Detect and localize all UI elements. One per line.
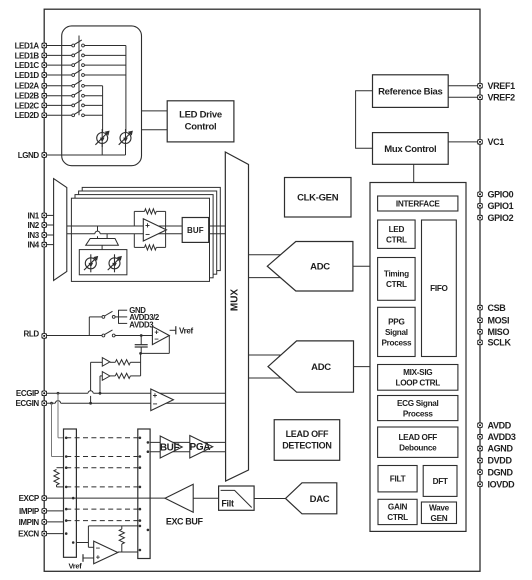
pin RLD [42, 333, 47, 338]
wire ILED1 to LGND bus [125, 144, 127, 155]
svg-text:Vref: Vref [179, 326, 194, 335]
block Reference Bias [373, 75, 449, 108]
wire VC1 [448, 141, 480, 143]
svg-text:BUF: BUF [187, 226, 204, 235]
wire VREF1 [448, 85, 480, 87]
switch RLD reference select [102, 311, 115, 318]
matrix row (open) [66, 508, 140, 510]
svg-text:Process: Process [381, 338, 412, 347]
wire funnel to bias box [101, 245, 103, 249]
op-amp ECG INA [151, 389, 174, 411]
wire EXCP row to EXC BUF [44, 497, 165, 499]
wire LED pin row 2 [44, 54, 72, 56]
svg-text:ECG Signal: ECG Signal [397, 399, 439, 408]
wire bias-muxctl link [356, 91, 373, 149]
wire ECGIN [44, 402, 55, 404]
wire switch out row 8 [84, 114, 102, 116]
wire switch out row 3 [84, 64, 126, 66]
block Filt [219, 486, 255, 510]
pin GPIO1 [477, 203, 482, 208]
svg-text:VREF1: VREF1 [488, 81, 516, 91]
pin GPIO0 [477, 192, 482, 197]
switch matrix left bank [64, 429, 77, 557]
svg-text:ADC: ADC [311, 362, 331, 373]
wire switch out row 6 [84, 95, 102, 97]
wire IN1 [44, 214, 53, 216]
switch S6 [72, 90, 85, 97]
svg-text:LED2B: LED2B [15, 92, 40, 101]
pin SCLK [477, 340, 482, 345]
svg-text:PPG: PPG [388, 317, 404, 326]
current source ILED1 [119, 129, 133, 147]
wire ECGIP [44, 392, 88, 394]
pin GPIO2 [477, 215, 482, 220]
pin AGND [477, 446, 482, 451]
block Mux Control [373, 133, 449, 165]
buffer CM2 [100, 375, 102, 377]
wire LED block to LED Drive Control (lower) [142, 129, 168, 131]
buffer EXC BUF [165, 484, 193, 512]
wire VREF2 [448, 96, 480, 98]
svg-text:RLD: RLD [24, 329, 40, 338]
matrix row (open) [66, 437, 140, 439]
svg-text:BUF: BUF [160, 443, 180, 454]
wire LGND bus [44, 154, 125, 156]
svg-text:EXCP: EXCP [19, 494, 40, 503]
switch S1 [72, 40, 85, 47]
pin ECGIN [42, 401, 47, 406]
block CLK-GEN [285, 178, 352, 218]
svg-text:IMPIN: IMPIN [19, 518, 40, 527]
svg-text:AGND: AGND [488, 444, 514, 454]
input mux trapezoid [54, 179, 67, 281]
svg-text:+: + [145, 221, 150, 230]
svg-text:DFT: DFT [433, 477, 448, 486]
pin AVDD3 [477, 434, 482, 439]
svg-text:CTRL: CTRL [387, 513, 408, 522]
wire RLD output down [168, 335, 170, 353]
buffer BUF [160, 436, 182, 458]
svg-text:GEN: GEN [431, 514, 448, 523]
svg-text:LEAD OFF: LEAD OFF [286, 429, 329, 439]
wire DAC to Filt [254, 498, 285, 500]
wire RLD feedback bottom [141, 352, 169, 354]
svg-text:LED1B: LED1B [15, 51, 40, 60]
wire switch out row 1 [84, 45, 126, 47]
block Timing CTRL [378, 258, 416, 301]
wire IN4 [44, 244, 53, 246]
switch S3 [72, 60, 85, 67]
block BUF [182, 218, 209, 243]
wire vref out to bank [118, 551, 138, 553]
svg-text:LED Drive: LED Drive [179, 110, 222, 121]
matrix row (open) [66, 520, 140, 522]
matrix row (open) [66, 467, 140, 469]
pin EXCP [42, 495, 47, 500]
pin ECGIP [42, 391, 47, 396]
wire to ref bracket [115, 316, 119, 318]
wire switch out row 7 [84, 104, 102, 106]
wire ADC2 out [354, 366, 371, 368]
LED switch block [62, 26, 142, 166]
current source bias B [108, 254, 122, 272]
svg-text:AVDD: AVDD [488, 420, 512, 430]
svg-text:IN3: IN3 [28, 231, 40, 240]
switch RLD enable [102, 330, 115, 337]
op-amp Vref [94, 541, 118, 564]
wire CM node [140, 353, 142, 376]
feedback resistor bottom [133, 234, 135, 248]
amplifier PGA [190, 436, 213, 459]
svg-text:LED: LED [389, 225, 405, 234]
pin LED1B [42, 53, 47, 58]
svg-text:LED1A: LED1A [15, 41, 40, 50]
wire vref fb top [88, 525, 137, 527]
wire EXCN [44, 533, 63, 535]
svg-text:VREF2: VREF2 [488, 93, 516, 103]
block LEAD OFF Debounce [378, 427, 458, 457]
svg-text:Timing: Timing [384, 270, 409, 279]
svg-text:−: − [145, 230, 150, 239]
svg-text:LED2A: LED2A [15, 82, 40, 91]
svg-text:Signal: Signal [385, 328, 408, 337]
svg-text:DVDD: DVDD [488, 456, 513, 466]
svg-text:FILT: FILT [390, 475, 406, 484]
svg-text:−: − [96, 544, 101, 553]
svg-text:+: + [153, 391, 158, 400]
pin LED2C [42, 103, 47, 108]
wire ECGIP to matrix [57, 393, 59, 438]
block DFT [423, 466, 457, 497]
block FILT [378, 466, 417, 492]
svg-text:Mux Control: Mux Control [384, 144, 436, 155]
feedback resistor top [133, 211, 135, 226]
LED switch bus [78, 36, 80, 116]
wire IMPIP [44, 510, 63, 512]
svg-text:LEAD OFF: LEAD OFF [398, 433, 437, 442]
svg-text:Filt: Filt [221, 499, 234, 509]
pin VC1 [477, 139, 482, 144]
svg-text:GPIO2: GPIO2 [488, 213, 514, 223]
wire LED pin row 6 [44, 95, 72, 97]
ADC (ECG) [268, 341, 354, 392]
wire ADC1 out [353, 265, 370, 267]
pin LED1D [42, 72, 47, 77]
block ECG Signal Process [378, 396, 458, 421]
switch S4 [72, 69, 85, 76]
svg-text:PGA: PGA [190, 442, 211, 453]
svg-text:SCLK: SCLK [488, 338, 512, 348]
svg-text:CSB: CSB [488, 303, 507, 313]
block PPG Signal Process [378, 307, 416, 356]
wire LED2 group down [102, 86, 104, 133]
svg-text:−: − [153, 400, 158, 409]
pin AVDD [477, 423, 482, 428]
wire ILED2 to LGND bus [101, 144, 103, 155]
svg-text:FIFO: FIFO [430, 284, 448, 293]
PPG channel stack [82, 187, 220, 270]
MUX [225, 152, 248, 481]
block Wave GEN [421, 502, 456, 524]
wire buf2 input drop [99, 376, 101, 393]
svg-text:MUX: MUX [229, 289, 240, 312]
wire bank to inv input [76, 542, 88, 544]
wire BUF chain n [150, 451, 225, 453]
pin IMPIN [42, 519, 47, 524]
svg-text:LED2D: LED2D [15, 111, 40, 120]
svg-text:Process: Process [403, 409, 434, 418]
matrix row (open) [66, 486, 140, 488]
svg-text:LED1D: LED1D [15, 71, 40, 80]
pin MISO [477, 329, 482, 334]
pin IN1 [42, 213, 47, 218]
svg-text:CLK-GEN: CLK-GEN [297, 193, 339, 204]
wire MUX to ADC2 n [249, 377, 282, 379]
pin VREF1 [477, 83, 482, 88]
block LED CTRL [378, 220, 416, 248]
wire buf1 input drop (lower) [90, 396, 92, 403]
svg-text:MIX-SIG: MIX-SIG [403, 368, 432, 377]
buffer CM1 [91, 361, 103, 363]
wire PPG signal n [67, 233, 226, 235]
svg-text:LED1C: LED1C [15, 61, 40, 70]
wire Mux Control to digital [413, 164, 415, 182]
svg-text:CTRL: CTRL [386, 280, 407, 289]
svg-text:DETECTION: DETECTION [282, 441, 331, 451]
wire Filt to EXC BUF [193, 497, 218, 499]
wire MUX to ADC1 n [249, 277, 282, 279]
svg-text:ADC: ADC [310, 262, 330, 273]
svg-text:LOOP CTRL: LOOP CTRL [396, 379, 441, 388]
op-amp RLD integrator [152, 326, 169, 344]
wire MUX to ADC2 p [249, 354, 282, 356]
svg-text:MOSI: MOSI [488, 316, 510, 326]
svg-text:IN2: IN2 [28, 221, 40, 230]
pin IN3 [42, 232, 47, 237]
wire ECGIN to matrix [51, 403, 53, 456]
pin LED2A [42, 83, 47, 88]
pin VREF2 [477, 95, 482, 100]
reference bracket GND/AVDD3/2/AVDD3 [118, 310, 120, 324]
svg-text:VC1: VC1 [488, 137, 505, 147]
switch S5 [72, 80, 85, 87]
block INTERFACE [378, 196, 458, 211]
chip boundary [44, 9, 480, 571]
svg-text:IN1: IN1 [28, 211, 40, 220]
svg-text:Control: Control [185, 122, 217, 133]
wire to feedback resistor [121, 526, 123, 529]
svg-text:CTRL: CTRL [386, 235, 407, 244]
svg-text:LGND: LGND [18, 151, 40, 160]
ADC (PPG) [267, 242, 353, 292]
wire buf1 input drop (upper) [90, 362, 92, 391]
svg-text:IOVDD: IOVDD [488, 479, 516, 489]
svg-text:EXC BUF: EXC BUF [166, 516, 204, 526]
pin IN2 [42, 222, 47, 227]
pin EXCN [42, 531, 47, 536]
wire IN3 [44, 234, 53, 236]
pin CSB [477, 305, 482, 310]
digital block [370, 183, 466, 532]
current source bias A [84, 254, 98, 272]
svg-text:Reference Bias: Reference Bias [378, 86, 442, 97]
svg-text:ECGIP: ECGIP [16, 389, 40, 398]
block GAIN CTRL [378, 499, 417, 524]
wire BUF chain p [150, 441, 225, 443]
pin LED1C [42, 62, 47, 67]
Vref input tie [83, 557, 94, 559]
wire LED pin row 7 [44, 104, 72, 106]
pin MOSI [477, 318, 482, 323]
block FIFO [422, 220, 457, 357]
svg-text:IN4: IN4 [28, 241, 40, 250]
wire LED pin row 8 [44, 114, 72, 116]
wire LED1 group down [125, 46, 127, 133]
pin IMPIP [42, 508, 47, 513]
switch S8 [72, 110, 85, 117]
switch S2 [72, 50, 85, 57]
wire LED pin row 4 [44, 74, 72, 76]
svg-text:GAIN: GAIN [388, 503, 408, 512]
svg-text:INTERFACE: INTERFACE [396, 199, 441, 208]
wire MUX to ADC1 p [249, 254, 282, 256]
svg-text:EXCN: EXCN [18, 530, 39, 539]
svg-text:AVDD3: AVDD3 [488, 432, 516, 442]
wire R1 out [130, 361, 140, 363]
svg-text:Debounce: Debounce [399, 443, 437, 452]
svg-text:−: − [154, 335, 159, 344]
switch matrix right bank [138, 429, 150, 559]
svg-text:GPIO0: GPIO0 [488, 190, 514, 200]
wire LED pin row 5 [44, 85, 72, 87]
pin DVDD [477, 458, 482, 463]
svg-text:IMPIP: IMPIP [19, 507, 40, 516]
pin IOVDD [477, 482, 482, 487]
wire LED block to LED Drive Control (upper) [142, 110, 168, 112]
pin IN4 [42, 242, 47, 247]
switch S7 [72, 100, 85, 107]
wire switch out row 5 [84, 85, 102, 87]
current source ILED2 [95, 129, 109, 147]
pin LED2B [42, 93, 47, 98]
DAC [286, 483, 337, 514]
svg-text:+: + [96, 553, 101, 562]
matrix row (open) [66, 456, 140, 458]
resistor matrix bias [57, 467, 64, 469]
svg-text:GPIO1: GPIO1 [488, 201, 514, 211]
svg-text:MISO: MISO [488, 327, 510, 337]
wire to ref switch [88, 317, 90, 336]
block MIX-SIG LOOP CTRL [378, 365, 458, 391]
electrode funnel [97, 226, 99, 231]
block LED Drive Control [167, 101, 234, 142]
svg-text:DGND: DGND [488, 467, 514, 477]
wire LED pin row 3 [44, 64, 72, 66]
wire RLD [44, 335, 102, 337]
Vref tie [170, 329, 176, 331]
pin LED2D [42, 113, 47, 118]
pin LED1A [42, 43, 47, 48]
wire switch out row 4 [84, 74, 126, 76]
wire LED pin row 1 [44, 45, 72, 47]
svg-text:Vref: Vref [69, 562, 83, 571]
capacitor RLD integrator [140, 334, 143, 337]
wire R2 out [130, 375, 140, 377]
pin DGND [477, 469, 482, 474]
svg-text:AVDD3: AVDD3 [129, 320, 154, 329]
svg-text:ECGIN: ECGIN [15, 399, 39, 408]
svg-text:LED2C: LED2C [15, 101, 40, 110]
svg-text:DAC: DAC [310, 494, 330, 505]
pin LGND [42, 152, 47, 157]
svg-text:Wave: Wave [429, 503, 450, 512]
wire IMPIN [44, 521, 63, 523]
bias current box [79, 250, 127, 275]
block LEAD OFF DETECTION [274, 420, 340, 461]
wire switch out row 2 [84, 54, 126, 56]
wire IN2 [44, 224, 53, 226]
op-amp TIA [143, 219, 166, 241]
wire PPG signal p [67, 225, 226, 227]
